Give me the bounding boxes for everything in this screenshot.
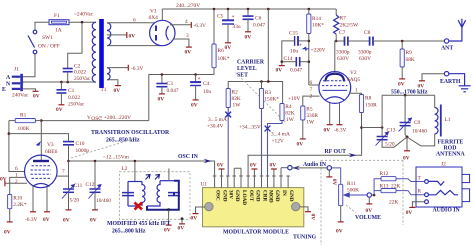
svg-text:+: + — [198, 76, 201, 82]
svg-text:GND: GND — [221, 190, 227, 202]
ground flag 0V (earth) — [419, 80, 425, 82]
svg-text:V2: V2 — [350, 70, 357, 76]
resistor R1 100K — [9, 113, 41, 133]
wire: oscillator line to OSC IN — [69, 161, 215, 176]
svg-text:0V: 0V — [276, 68, 283, 74]
junction: R1/V3 grid node — [40, 119, 43, 122]
junction: R9 tap — [401, 40, 404, 43]
potentiometer R11 500K — [339, 181, 367, 222]
svg-text:ON / OFF: ON / OFF — [38, 44, 60, 50]
svg-text:~12...15Vm: ~12...15Vm — [103, 155, 130, 161]
svg-text:0V: 0V — [250, 163, 257, 169]
junction: C12 tap — [94, 160, 97, 163]
L2 primary tank (coil + cap) — [122, 182, 145, 207]
ground flag 0V (HT centre tap) — [126, 32, 128, 38]
svg-text:0.047: 0.047 — [167, 88, 179, 94]
svg-text:TUNING: TUNING — [293, 235, 317, 241]
svg-text:330R: 330R — [306, 113, 318, 119]
wire: L2 secondary top stub — [168, 168, 170, 180]
svg-text:+34...35V: +34...35V — [239, 125, 261, 131]
terminal EARTH — [440, 72, 461, 86]
svg-text:265...850 kHz: 265...850 kHz — [106, 138, 140, 144]
svg-text:-6.3V: -6.3V — [25, 217, 38, 223]
svg-text:= +200...220V: = +200...220V — [100, 115, 132, 121]
svg-text:VOLUME: VOLUME — [355, 215, 381, 221]
resistor R14 — [307, 9, 325, 85]
svg-text:10/460: 10/460 — [96, 198, 111, 204]
svg-text:ANT: ANT — [441, 46, 453, 52]
svg-text:2K2/5W: 2K2/5W — [340, 23, 359, 29]
svg-text:6: 6 — [310, 80, 313, 86]
svg-text:R1: R1 — [20, 113, 27, 119]
svg-text:0V: 0V — [158, 97, 165, 103]
valve V2 6AQ5 — [319, 70, 361, 103]
junction: C2 tap — [66, 81, 69, 84]
capacitor C2 — [63, 64, 91, 83]
svg-text:2: 2 — [15, 179, 18, 185]
dashed gang line (oscillator) — [71, 139, 133, 158]
wire: V3 heater leg -6.3V — [32, 186, 34, 212]
svg-text:0V: 0V — [0, 177, 7, 183]
U1 pin stubs — [213, 168, 290, 188]
svg-text:TRANSITRON OSCILLATOR: TRANSITRON OSCILLATOR — [91, 130, 170, 136]
svg-text:C8: C8 — [364, 30, 371, 36]
resistor R2 82K 1W — [226, 89, 241, 177]
wire: V1 heater pin 3 to 0V — [174, 39, 189, 47]
wire: V1 cathode up to HT rail — [161, 9, 163, 20]
junction: R3 top — [260, 80, 263, 83]
svg-text:0V: 0V — [297, 142, 304, 148]
rectifier valve V1 6X4 — [149, 9, 176, 46]
wire: V2 anode — [335, 41, 336, 72]
ground flag -6.3V (V3 heater) — [30, 211, 36, 213]
capacitor C14 0.047 — [282, 56, 309, 74]
ground flag 0V (C14/C15) — [281, 62, 283, 66]
ground flag 0V (C5) — [225, 42, 231, 44]
wire: audio line from U1 IN — [281, 167, 288, 169]
svg-text:+220V: +220V — [311, 48, 326, 54]
svg-text:6: 6 — [15, 166, 18, 172]
svg-text:0V: 0V — [178, 226, 185, 232]
variable capacitor C9 10/460 — [399, 95, 428, 137]
wire: Vosc line — [41, 120, 149, 122]
svg-text:RF OUT: RF OUT — [325, 149, 347, 155]
svg-text:3...5 mA: 3...5 mA — [208, 117, 227, 123]
junction: fuse output node — [81, 21, 84, 24]
svg-text:+30.4V: +30.4V — [207, 124, 223, 130]
resistor R6 — [212, 9, 230, 75]
svg-text:+: + — [299, 43, 302, 49]
wire: V2 screen stub — [309, 84, 319, 86]
svg-text:3: 3 — [186, 33, 189, 39]
svg-text:CRR: CRR — [261, 190, 267, 201]
svg-text:500K: 500K — [347, 188, 359, 194]
svg-text:10K*: 10K* — [218, 56, 230, 62]
svg-text:C5: C5 — [217, 14, 224, 20]
svg-text:-6.3V: -6.3V — [194, 23, 207, 29]
svg-text:R4: R4 — [285, 104, 292, 110]
capacitor C6 0.047 — [243, 9, 266, 32]
svg-text:7: 7 — [310, 87, 313, 93]
junction: V2 anode node — [335, 40, 338, 43]
wire: HT centre tap — [107, 34, 127, 36]
svg-text:3...4 mA: 3...4 mA — [271, 132, 290, 138]
svg-text:250Vac: 250Vac — [74, 76, 91, 82]
svg-text:265...800 kHz: 265...800 kHz — [112, 229, 146, 235]
svg-text:R: R — [418, 189, 422, 195]
svg-text:Audio IN: Audio IN — [303, 162, 327, 168]
svg-text:ANTENNA: ANTENNA — [436, 152, 465, 158]
svg-text:GND: GND — [288, 190, 294, 202]
svg-text:C15: C15 — [289, 31, 298, 37]
ground flag 0V (J2 sleeve) — [409, 206, 415, 208]
svg-text:3300p: 3300p — [358, 50, 372, 56]
svg-text:0V: 0V — [403, 156, 410, 162]
terminal (audio tie point at U1) — [288, 166, 292, 170]
connector J1 — [2, 67, 29, 99]
ground flag 0V (C1) — [58, 104, 64, 106]
svg-text:MODULATOR MODULE: MODULATOR MODULE — [223, 230, 289, 236]
capacitor C1 — [56, 82, 84, 108]
resistor R7 (zigzag 2K2/5W) — [334, 9, 359, 41]
title CARRIER LEVEL SET — [237, 60, 265, 79]
net flag -6.3V (V1 heater) — [190, 22, 192, 28]
svg-text:0V: 0V — [331, 179, 337, 186]
svg-text:0V: 0V — [270, 163, 277, 169]
J2 tip contact T — [418, 176, 445, 186]
junction: C9 top — [404, 94, 407, 97]
ground flag 0V (R9) — [399, 78, 405, 80]
svg-text:F1: F1 — [54, 13, 60, 19]
wire: fuse to transformer primary top — [69, 21, 96, 23]
IFT L2 dashed enclosure — [119, 172, 190, 220]
svg-text:6BE6: 6BE6 — [45, 149, 58, 155]
capacitor C10 1000p — [63, 141, 89, 161]
svg-text:30V: 30V — [228, 190, 234, 199]
resistor R9 — [400, 41, 415, 79]
wire: audio line to pot top — [332, 168, 341, 184]
svg-text:C7: C7 — [339, 30, 346, 36]
svg-text:C9: C9 — [414, 120, 421, 126]
wire: switch to J1 pin A — [23, 54, 36, 77]
net arrow +220V — [303, 47, 309, 50]
wire: V3 pin7 to C11 node — [57, 175, 69, 177]
resistor R12 22K — [380, 171, 425, 181]
svg-text:V1: V1 — [150, 9, 157, 15]
svg-text:0V: 0V — [56, 107, 63, 113]
junction: R14/C15 node — [308, 40, 311, 43]
svg-text:0V: 0V — [129, 34, 136, 40]
variable capacitor C11 5/20 — [62, 161, 83, 210]
dashed section divider (tuning gang) — [321, 160, 403, 245]
aerial antenna symbol — [449, 19, 466, 41]
svg-text:0V: 0V — [90, 218, 97, 224]
svg-text:R14: R14 — [312, 16, 321, 22]
svg-text:22K: 22K — [389, 200, 398, 206]
svg-text:1: 1 — [355, 88, 358, 94]
connector J2 — [416, 161, 470, 207]
wire: RF node to tank left — [362, 127, 383, 129]
J2 sleeve contact S — [412, 200, 428, 207]
junction: C4 tap — [194, 73, 197, 76]
wire: V1 heater pin 4 — [170, 24, 191, 26]
svg-text:C1: C1 — [68, 88, 75, 94]
wire: earth terminal to 0V flag — [422, 74, 444, 81]
svg-text:6AQ5: 6AQ5 — [347, 77, 360, 83]
resistor R3 150K* — [259, 82, 279, 177]
svg-text:C6: C6 — [255, 16, 262, 22]
svg-text:2: 2 — [310, 94, 313, 100]
svg-text:10K*: 10K* — [312, 23, 324, 29]
wire: V3 pin1 to R10 — [10, 177, 26, 194]
svg-text:4: 4 — [185, 19, 188, 25]
junction: R14/C14 node — [308, 60, 311, 63]
valve V3 6BE6 — [25, 142, 58, 188]
ground flag 0V (V3 pin2) — [4, 180, 6, 186]
svg-text:0V: 0V — [191, 103, 198, 109]
ground flag 0V (C4) — [193, 99, 199, 101]
svg-text:240Vac: 240Vac — [12, 93, 29, 99]
wire: C8 to aerial — [373, 40, 444, 42]
svg-text:7: 7 — [62, 169, 65, 175]
ground flag 0V (audio screen) — [328, 170, 330, 177]
ground flag 0V (wiper screen) — [368, 197, 370, 203]
resistor R4 82K 1W — [268, 104, 295, 177]
svg-text:GND: GND — [274, 190, 280, 202]
svg-text:550...1700 kHz: 550...1700 kHz — [391, 90, 428, 96]
wire: U1 left hole to 0V — [196, 207, 205, 213]
ground flag 0V (tank) — [404, 150, 410, 152]
svg-text:82K: 82K — [232, 96, 241, 102]
ground flag 0V (C11) — [66, 209, 72, 211]
svg-text:L2: L2 — [122, 166, 128, 172]
wire: J1 E to 0V — [23, 89, 36, 91]
junction: R8/RF node — [360, 126, 363, 129]
junction: tank left/C13 — [381, 126, 384, 129]
J2 ring contact R — [418, 189, 459, 197]
wire: tank ground diagonals — [394, 137, 421, 151]
wire: V3 grid lead — [40, 121, 42, 161]
wire: C7 to C8 — [348, 40, 369, 42]
wire: heater winding top — [107, 67, 128, 69]
svg-text:C11: C11 — [74, 183, 83, 189]
arrow OSC IN — [199, 159, 212, 163]
svg-text:R8: R8 — [365, 96, 372, 102]
svg-text:GND: GND — [254, 190, 260, 202]
IFT core adjust marks — [146, 175, 160, 180]
svg-text:1A: 1A — [55, 28, 62, 34]
svg-text:R5: R5 — [306, 107, 313, 113]
svg-text:EARTH: EARTH — [440, 79, 461, 85]
svg-text:C3: C3 — [167, 81, 174, 87]
svg-text:68K: 68K — [406, 57, 415, 63]
ground flag 0V (C6) — [245, 31, 251, 33]
wire: carrier set top line — [228, 82, 282, 104]
svg-text:0V: 0V — [310, 214, 316, 221]
resistor R5 330R 1W — [301, 106, 319, 139]
wire: RF OUT from U1 to tank — [248, 128, 362, 177]
svg-text:6X4: 6X4 — [149, 15, 159, 21]
svg-text:~240Vac: ~240Vac — [74, 12, 94, 18]
junction: C3 tap — [161, 73, 164, 76]
ground flag 0V (U1 pin2) — [219, 168, 225, 170]
svg-text:IN: IN — [281, 190, 287, 196]
wire: V2 heater leg 0V — [329, 103, 331, 125]
svg-text:0.047: 0.047 — [253, 23, 265, 29]
svg-text:R6: R6 — [218, 48, 225, 54]
svg-text:630V: 630V — [359, 56, 371, 62]
svg-text:82K: 82K — [285, 111, 294, 117]
svg-text:33u: 33u — [233, 24, 241, 30]
svg-text:22K: 22K — [391, 184, 400, 190]
junction: rail feed — [267, 80, 270, 83]
ground flag 0V (U1 pin10) — [271, 168, 277, 170]
svg-text:C4: C4 — [203, 81, 210, 87]
ground flag 0V (L2 bus) — [167, 208, 170, 211]
wire: output tank top — [382, 95, 435, 127]
ground flag 0V (C12) — [92, 209, 98, 211]
svg-text:R3: R3 — [265, 90, 272, 96]
wire: live from fuse to switch — [35, 22, 49, 30]
svg-text:0.022: 0.022 — [74, 70, 86, 76]
title FERRITE ROD ANTENNA — [436, 140, 465, 158]
svg-text:2.2K*: 2.2K* — [13, 202, 27, 208]
variable capacitor C13 5/20 — [376, 128, 396, 148]
junction: rail/R14 — [308, 8, 311, 11]
svg-text:10u: 10u — [290, 49, 298, 55]
svg-text:10u: 10u — [203, 89, 211, 95]
capacitor C15 10u — [282, 31, 309, 62]
variable capacitor C12 10/460 — [86, 161, 112, 210]
svg-text:T1: T1 — [101, 87, 107, 93]
svg-text:1W: 1W — [306, 120, 315, 126]
wire: rail down to carrier level network — [267, 9, 269, 82]
svg-text:GND: GND — [234, 190, 240, 202]
svg-text:0V: 0V — [114, 88, 121, 94]
ground flag 0V (U1 frame) — [305, 211, 311, 213]
wire: V2 grid to R5 — [303, 96, 320, 106]
wire: V3 pin2 to 0V — [5, 182, 27, 184]
svg-text:C10: C10 — [76, 141, 85, 147]
svg-text:0V: 0V — [366, 208, 373, 214]
arrow RF OUT — [344, 153, 357, 157]
terminal (wiper tie point) — [367, 193, 371, 197]
svg-text:0.047: 0.047 — [290, 68, 302, 74]
svg-text:MODIFIED 455 kHz IFT: MODIFIED 455 kHz IFT — [107, 221, 170, 227]
switch SW1 ON/OFF — [28, 30, 60, 54]
dashed link (carrier set) — [236, 73, 287, 124]
junction: rail/C5 — [227, 8, 230, 11]
svg-text:R12: R12 — [380, 171, 389, 177]
svg-text:3300p: 3300p — [336, 50, 350, 56]
ground flag 0V (J1 earth) — [33, 90, 39, 92]
capacitor C8 3300p — [358, 30, 373, 62]
junction: left rail tap — [8, 132, 11, 135]
junction: L2 tap — [134, 160, 137, 163]
ground flag 0V (V3 cathode) — [44, 211, 50, 213]
inductor L1 on ferrite rod — [421, 105, 451, 146]
svg-text:5/20: 5/20 — [70, 198, 80, 204]
svg-text:J2: J2 — [441, 161, 446, 167]
svg-text:+: + — [232, 14, 235, 20]
junction: C14/C15 ground leg — [281, 60, 284, 63]
resistor R13 22K — [380, 184, 425, 206]
wire: HT rail 240..270V — [162, 8, 336, 10]
svg-text:10/460: 10/460 — [412, 129, 427, 135]
svg-text:R2: R2 — [232, 90, 239, 96]
wire: U1 frame to 0V — [300, 207, 308, 212]
svg-text:OSC: OSC — [215, 190, 221, 201]
svg-text:+12V: +12V — [272, 139, 284, 145]
ground flag 0V (C3) — [159, 93, 165, 95]
svg-text:J1: J1 — [14, 67, 19, 73]
wire: left rail down to V3 — [9, 121, 25, 172]
svg-text:LEVEL: LEVEL — [237, 66, 257, 72]
ground flag 0V (V2 heater) — [327, 124, 333, 126]
svg-text:R11: R11 — [347, 181, 356, 187]
svg-text:L1: L1 — [445, 117, 451, 123]
svg-text:0V: 0V — [191, 216, 198, 222]
svg-text:+10V: +10V — [288, 96, 300, 102]
svg-text:0V: 0V — [225, 45, 232, 51]
capacitor C3 0.047 — [156, 75, 179, 95]
svg-text:150R: 150R — [365, 103, 377, 109]
wire: V2 cathode to R8 — [350, 93, 361, 94]
svg-text:5/20: 5/20 — [385, 142, 395, 148]
svg-text:R10: R10 — [13, 196, 22, 202]
svg-text:0V: 0V — [185, 50, 192, 56]
fuse F1 — [49, 13, 69, 34]
net flag -6.3V (heater) — [127, 65, 129, 71]
junction: rail/R6 — [213, 8, 216, 11]
ground flag -6.3V (V2 heater) — [337, 124, 343, 126]
wire: mix node to R12/R13 — [374, 179, 381, 195]
wire: HT winding bottom to V1 plate — [107, 45, 161, 47]
ground flag 0V (R10) — [7, 221, 13, 223]
wire: V3 cathode leg 0V — [46, 187, 48, 212]
capacitor C4 10u electrolytic — [190, 75, 211, 100]
measure mark x (R2) — [225, 112, 231, 118]
svg-text:OSC IN: OSC IN — [178, 154, 199, 160]
svg-text:0V: 0V — [406, 210, 413, 216]
wire: heater winding bottom to 0V — [107, 80, 118, 86]
junction: R12/R13 mix node — [372, 194, 375, 196]
svg-text:C12: C12 — [86, 182, 95, 188]
svg-text:240...270V: 240...270V — [176, 3, 200, 9]
svg-text:OUT: OUT — [248, 190, 254, 202]
svg-text:0V: 0V — [164, 228, 171, 234]
svg-text:1W: 1W — [286, 117, 295, 123]
svg-text:LOAD: LOAD — [241, 190, 247, 205]
junction: tank ground node — [406, 136, 409, 139]
wire: OSC line down to L2 primary — [134, 161, 136, 182]
svg-text:R13: R13 — [380, 184, 389, 190]
measure mark x (R4) — [265, 126, 271, 132]
svg-text:-6.3V: -6.3V — [334, 128, 347, 134]
svg-text:630V: 630V — [337, 56, 349, 62]
svg-text:MOD: MOD — [267, 190, 273, 203]
svg-text:SW1: SW1 — [42, 35, 53, 41]
ground flag 0V (R11) — [338, 221, 344, 223]
ground flag 0V (IFT can) — [181, 217, 184, 220]
ground flag 0V (heater) — [115, 85, 121, 87]
capacitor C5 (electrolytic 33u) — [217, 9, 241, 43]
svg-text:150K*: 150K* — [264, 97, 279, 103]
wire: V2 heater leg -6.3V — [339, 103, 341, 125]
svg-text:-6.3V: -6.3V — [131, 66, 144, 72]
svg-text:0V: 0V — [43, 217, 50, 223]
red X (removed part mark) — [135, 203, 143, 210]
